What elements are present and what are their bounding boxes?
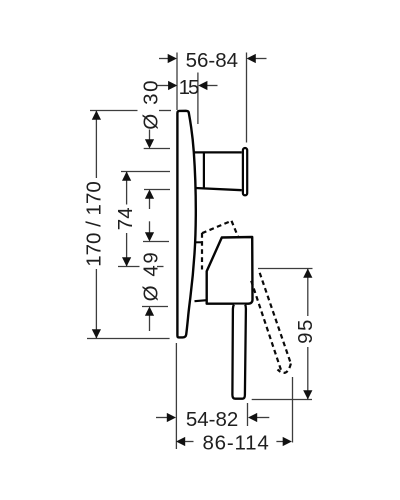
tick dia49 lower xyxy=(142,306,168,308)
shut-off handle cylinder top edge xyxy=(194,151,242,153)
extension 56-84 right xyxy=(246,53,248,143)
dim line 86-114 right tail xyxy=(276,441,284,443)
escutcheon plate profile xyxy=(177,111,195,338)
tick dia30 lower xyxy=(144,148,170,150)
arrow left 15 right xyxy=(198,81,207,90)
arrow down dia30 xyxy=(145,139,154,148)
arrow up 95 xyxy=(303,269,312,278)
svg-text:Ø 30: Ø 30 xyxy=(140,79,163,130)
arrow right 54-82 left xyxy=(167,413,176,422)
tick 74-bottom left segment xyxy=(118,266,140,268)
dim line 15 left tail xyxy=(156,85,169,87)
svg-text:74: 74 xyxy=(114,207,137,230)
dashed hub right edge upper xyxy=(232,221,239,237)
tick 74-bottom right segment xyxy=(157,266,164,268)
dim line 56-84 right tail xyxy=(255,58,267,60)
dim line dia49 top arrow tail xyxy=(149,221,151,233)
svg-text:56-84: 56-84 xyxy=(186,49,238,72)
thin extension / tick lines xyxy=(87,53,313,450)
shut-off handle end flange xyxy=(243,148,247,195)
svg-text:54-82: 54-82 xyxy=(186,408,238,431)
lever handle hub xyxy=(207,237,253,304)
svg-text:15: 15 xyxy=(179,76,199,99)
dashed lever upper line xyxy=(260,273,291,364)
tick dia49 upper xyxy=(143,241,169,243)
tick plate-top left segment xyxy=(90,110,138,112)
tick plate-top right segment xyxy=(159,110,171,112)
dim line 170/170 upper segment xyxy=(95,111,97,179)
dim line 86-114 left tail xyxy=(184,441,194,443)
dashed hub left edge xyxy=(201,233,203,270)
tick plate-bottom xyxy=(87,338,170,340)
dim line 54-82 left tail xyxy=(156,417,168,419)
tick 95-bottom xyxy=(252,399,312,401)
extension wall plane bottom xyxy=(175,343,177,449)
arrow tail at y189 xyxy=(149,198,151,209)
dim line 95 lower segment xyxy=(307,347,309,400)
dim line 74 upper segment xyxy=(126,172,128,205)
arrow left 54-82 right xyxy=(248,413,257,422)
arrow left 56-84 right xyxy=(247,54,256,63)
svg-text:170 / 170: 170 / 170 xyxy=(82,181,105,267)
dashed hub top edge xyxy=(202,221,232,233)
svg-text:95: 95 xyxy=(294,318,317,344)
arrow down dia49-top xyxy=(145,232,154,241)
arrow up dia49-bottom xyxy=(145,307,154,316)
arrow down at plate-bottom (170/170) xyxy=(92,329,101,338)
dim line 56-84 left tail xyxy=(159,58,169,60)
dimension texts xyxy=(82,49,317,454)
shut-off handle base ring divider xyxy=(203,152,205,189)
dim line 54-82 right tail xyxy=(256,417,269,419)
cartridge sleeve top edge xyxy=(196,241,203,243)
dim line 15 right tail xyxy=(206,85,218,87)
svg-text:86-114: 86-114 xyxy=(202,431,269,454)
arrow up 74 xyxy=(122,172,131,181)
svg-text:Ø 49: Ø 49 xyxy=(140,251,163,302)
arrow right 86-114 right xyxy=(283,437,292,446)
arrow right 56-84 left xyxy=(168,54,177,63)
dim line dia30 arrow tail xyxy=(149,130,151,141)
arrow up y189 xyxy=(145,190,154,199)
extension wall plane top xyxy=(176,53,178,111)
dashed raised-position handle xyxy=(202,221,291,373)
cartridge sleeve bottom edge xyxy=(195,300,207,301)
arrowheads xyxy=(92,54,313,446)
arrow down 95 xyxy=(303,390,312,399)
extension 54-82 right xyxy=(247,403,249,426)
dim line dia49 bottom arrow tail xyxy=(149,315,151,331)
arrow right 15 left xyxy=(168,81,177,90)
dim line 170/170 lower segment xyxy=(95,269,97,339)
tick 95-top xyxy=(258,268,313,270)
arrow up at plate-top (170/170) xyxy=(92,111,101,120)
dashed lever lower line xyxy=(251,281,281,372)
arrow down 74 xyxy=(122,257,131,266)
lever handle stem xyxy=(232,305,246,399)
extension 86-114 right xyxy=(292,377,294,443)
tick 74-top xyxy=(121,171,170,173)
extension 15-right xyxy=(197,73,199,125)
shut-off handle cylinder bottom edge xyxy=(195,188,242,190)
dashed lever tip cap xyxy=(278,364,291,373)
dim line 74 lower segment xyxy=(126,233,128,267)
tick y189 xyxy=(144,189,170,191)
dim line 95 upper segment xyxy=(307,269,309,317)
arrow left 86-114 left xyxy=(176,437,185,446)
